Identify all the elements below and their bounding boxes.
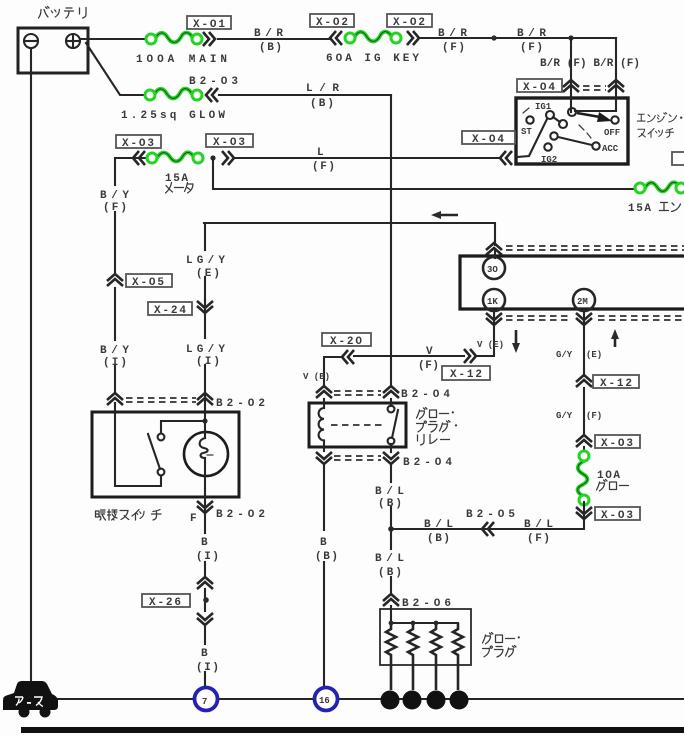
connector label X-03 right [206,134,253,149]
connector X-26 chevrons upper [197,577,213,589]
svg-text:X-2O: X-2O [330,336,363,348]
svg-text:B: B [201,648,209,660]
connector label X-02 right [387,14,432,29]
svg-text:IG2: IG2 [541,155,557,165]
wire battery diagonal to glow fuse [86,43,147,95]
ground dot G1 [381,691,400,710]
connector X-12 chevrons right [576,375,592,387]
junction node [568,35,573,40]
svg-text:1OOA MAIN: 1OOA MAIN [136,54,228,66]
svg-text:1.25sq GLOW: 1.25sq GLOW [121,110,226,122]
svg-text:B/R: B/R [254,28,284,40]
ground car label (katakana white) [15,697,43,707]
glow plug relay box [309,403,406,447]
svg-text:(B): (B) [427,533,451,545]
battery [18,28,88,73]
svg-text:V: V [426,346,434,358]
svg-text:X-12: X-12 [450,369,483,381]
label B/L (B) lower [375,553,405,579]
svg-text:1OA: 1OA [597,470,621,482]
wire V (E) from 1K [477,311,494,356]
svg-text:(F): (F) [442,42,466,54]
svg-text:16: 16 [319,696,330,706]
connector B2-04 top chevrons and label [316,386,451,401]
svg-text:B/R: B/R [517,28,547,40]
ignition switch box U1 [516,98,628,165]
label B/L (B) upper [375,486,405,510]
svg-text:L: L [317,147,325,159]
svg-text:B/Y: B/Y [100,345,130,357]
connector X-26 chevrons lower [197,613,213,625]
svg-text:IG1: IG1 [535,102,552,112]
svg-text:(B): (B) [378,498,403,510]
connector X-03 chevrons right column bottom [576,507,592,519]
fusible link 100A MAIN [136,33,228,66]
wire battery negative down to ground [30,48,32,683]
wire B (I) [204,497,206,577]
current arrow down [512,330,520,353]
svg-text:V (B): V (B) [303,372,330,382]
label B (B) [315,537,339,563]
junction node [210,155,215,160]
glow plug R2 [408,623,418,690]
svg-text:X-O2: X-O2 [393,17,426,29]
svg-text:3O: 3O [487,265,498,275]
svg-text:B: B [201,537,209,549]
connector X-02 chevrons left [330,31,342,45]
label B/Y (I) [100,345,130,369]
wire relay block feed from bus [204,223,495,245]
connector X-04 chevrons top pair [563,80,624,92]
label LG/Y (I) [186,344,226,368]
wire B/Y left column [114,158,116,413]
svg-text:(I): (I) [103,357,128,369]
glow plug bus [389,606,458,625]
current arrow left [431,211,458,219]
wire B/R (B) [218,28,331,54]
relay coil [319,399,324,451]
svg-text:(B): (B) [315,551,339,563]
svg-text:B2-O4: B2-O4 [401,389,451,401]
glow plug R1 [386,623,396,690]
svg-text:X-O3: X-O3 [601,510,634,522]
connector B2-06 chevrons and label [383,594,452,610]
wire corner to meter fuse [115,157,147,159]
connector B2-02 chevrons and label [107,393,266,410]
svg-text:(E): (E) [196,268,221,280]
svg-text:X-O4: X-O4 [472,134,505,146]
relay link dashes [331,424,386,426]
label B/Y (F) [100,190,130,214]
svg-text:(B): (B) [310,98,335,110]
connector label X-05 [126,274,172,289]
wire L/R (B) [219,83,391,110]
svg-text:(B): (B) [259,42,283,54]
svg-text:B2-O2: B2-O2 [216,509,266,521]
svg-text:X-O4: X-O4 [523,82,556,94]
svg-text:X-24: X-24 [154,305,187,317]
connector X-03 chevrons right [222,151,234,165]
svg-text:(F): (F) [103,202,128,214]
svg-text:X-O3: X-O3 [122,138,155,150]
ground dot G3 [427,691,446,710]
svg-text:(B): (B) [378,567,403,579]
svg-text:(I): (I) [196,551,220,563]
junction node B/L [388,526,394,532]
svg-text:(F): (F) [586,411,602,421]
connector label X-20 [322,333,371,348]
connector X-20 chevrons [342,350,354,364]
connector label X-26 [142,594,190,609]
svg-text:(F): (F) [418,360,440,372]
connector label partial box right edge [672,152,684,165]
current arrow up [611,329,619,347]
connector dashes below relay block [506,316,684,320]
junction node X-26 [203,597,209,603]
svg-text:F: F [190,513,198,525]
pin 2M [573,289,595,311]
svg-text:LG/Y: LG/Y [186,255,226,267]
ground dot G4 [450,691,469,710]
svg-text:ACC: ACC [602,144,619,154]
svg-text:B2-O2: B2-O2 [216,398,266,410]
connector X-12 chevrons left [464,349,476,363]
fusible link 1.25sq GLOW [121,89,226,122]
fuse 15A meter [147,152,203,185]
svg-text:B/R (F) B/R (F): B/R (F) B/R (F) [540,58,640,70]
connector label X-04 top [517,79,562,94]
label B (I) upper [196,537,220,563]
fuse 15A engine [628,182,684,215]
svg-text:X-O3: X-O3 [601,438,634,450]
connector label X-12 right [593,375,639,390]
wire 15A engine fuse feed [213,158,636,189]
svg-text:(F): (F) [312,161,336,173]
wire B/L branch to 10A fuse [391,502,584,529]
connector X-03 chevrons left [133,151,145,165]
warm-up switch label (kanji+katakana) [96,510,162,521]
connector label X-03 left [116,135,161,150]
connector X-24 chevrons [197,301,213,313]
svg-text:B2-O4: B2-O4 [403,457,453,469]
connector label X-03 right column bottom [595,507,640,522]
connector X-01 chevrons [203,32,215,46]
svg-text:2M: 2M [577,297,588,307]
wire into pin 30 [494,251,496,258]
connector X-05 chevrons [107,274,123,286]
glow plug R3 [431,623,441,690]
engine switch label (katakana) [637,113,682,122]
connector chevrons below 2M [576,313,592,325]
warm-up switch box [92,412,239,497]
svg-text:G/Y: G/Y [556,411,573,421]
connector X-03 chevrons right column top [576,435,592,447]
relay contact [388,399,398,452]
junction node [491,35,496,40]
fusible link 60A IG KEY [326,32,420,65]
svg-text:B/Y: B/Y [100,190,130,202]
wire V (B) corner down to relay coil [324,357,342,385]
bottom border bar [21,727,684,733]
svg-text:X-26: X-26 [149,597,182,609]
connector X-04 chevrons left of switch [500,151,512,165]
svg-text:1K: 1K [487,297,498,307]
svg-text:B2-O5: B2-O5 [466,509,516,521]
svg-text:B/L: B/L [375,553,405,565]
wire G/Y (E) from 2M [556,311,602,374]
svg-text:B/L: B/L [524,519,554,531]
svg-text:(I): (I) [196,662,220,674]
pin 30 [483,257,505,279]
connector label X-02 left [310,14,354,29]
wire drop to IG1 [570,38,572,98]
label LG/Y (E) [186,255,226,280]
glow plug label (katakana) [483,633,520,644]
connector label X-03 right column top [595,435,640,450]
wire B/R (F) to ignition switch [419,28,616,54]
svg-text:15A: 15A [165,173,189,185]
svg-text:B2-O3: B2-O3 [189,76,239,88]
connector chevrons below 1K [486,313,502,325]
svg-text:B/L: B/L [375,486,405,498]
svg-text:ST: ST [521,127,532,137]
svg-text:(F): (F) [520,42,544,54]
label B/L (F) [524,519,554,545]
fuse 15A engine katakana [660,203,681,212]
svg-text:(F): (F) [527,533,551,545]
svg-text:B: B [320,537,328,549]
indicator lamp [184,413,228,497]
labels B/R (F) B/R (F) [540,58,640,70]
connector label X-24 [148,302,192,317]
glow plug box [380,609,471,665]
fuse 15A meter katakana [166,183,194,194]
svg-text:B/L: B/L [424,519,454,531]
wire B/L (B) from relay contact [390,464,392,594]
svg-text:X-O3: X-O3 [213,137,246,149]
wire LG/Y column [204,223,206,413]
wire battery positive to fuse [80,38,147,40]
connector label X-01 [187,16,231,31]
fuse 10A glow katakana [597,480,629,491]
connector dashes above relay block [506,246,684,250]
wire V (F) [354,346,464,372]
connector chevrons above relay block [486,243,502,255]
relay block box [460,256,684,309]
connector B2-05 chevrons [482,522,494,536]
connector X-02 chevrons right [407,31,419,45]
wire G/Y (F) [556,388,602,434]
svg-text:LG/Y: LG/Y [186,344,226,356]
wire through X-26 [204,589,206,611]
svg-text:X-O5: X-O5 [132,277,165,289]
svg-text:G/Y: G/Y [556,350,573,360]
svg-text:7: 7 [202,697,207,707]
battery label (katakana) [39,7,87,19]
ground car symbol [3,681,58,718]
junction node in switch box [202,418,207,423]
wire B (B) right of warmup box [323,464,325,688]
svg-text:B/R: B/R [438,28,468,40]
svg-text:15A: 15A [628,203,652,215]
svg-text:6OA IG KEY: 6OA IG KEY [326,53,420,65]
svg-text:(I): (I) [196,356,221,368]
svg-text:(E): (E) [586,350,602,360]
warm-up switch internal wiring [115,413,205,486]
connector B2-02 bottom chevrons and label [190,501,266,525]
svg-text:OFF: OFF [604,128,620,138]
connector B2-04 bottom chevrons and label [316,452,453,469]
connector circle 7 [195,688,218,711]
svg-text:L/R: L/R [306,83,340,95]
ground bus line [56,698,684,700]
glow plug relay label (katakana) [417,408,454,419]
connector label X-04 left [462,131,515,146]
label B/L (B) branch [424,519,454,545]
glow plug R4 [453,623,463,690]
fuse 10A glow (vertical) [578,447,621,505]
svg-text:X-12: X-12 [600,378,633,390]
ground dot G2 [403,691,422,710]
wire drop to OFF [615,38,617,98]
pin 1K [483,289,505,311]
connector label X-12 left [442,366,490,381]
connector B2-03 chevrons [206,88,218,102]
svg-text:X-O1: X-O1 [193,19,226,31]
svg-text:X-O2: X-O2 [316,17,349,29]
wire L/R vertical down to glow relay [390,95,392,385]
connector circle 16 [315,688,338,711]
svg-text:V (E): V (E) [477,340,504,350]
wire L (F) to ignition switch [234,147,500,173]
label B (I) lower [196,648,220,674]
wire B (I) lower [204,625,206,688]
